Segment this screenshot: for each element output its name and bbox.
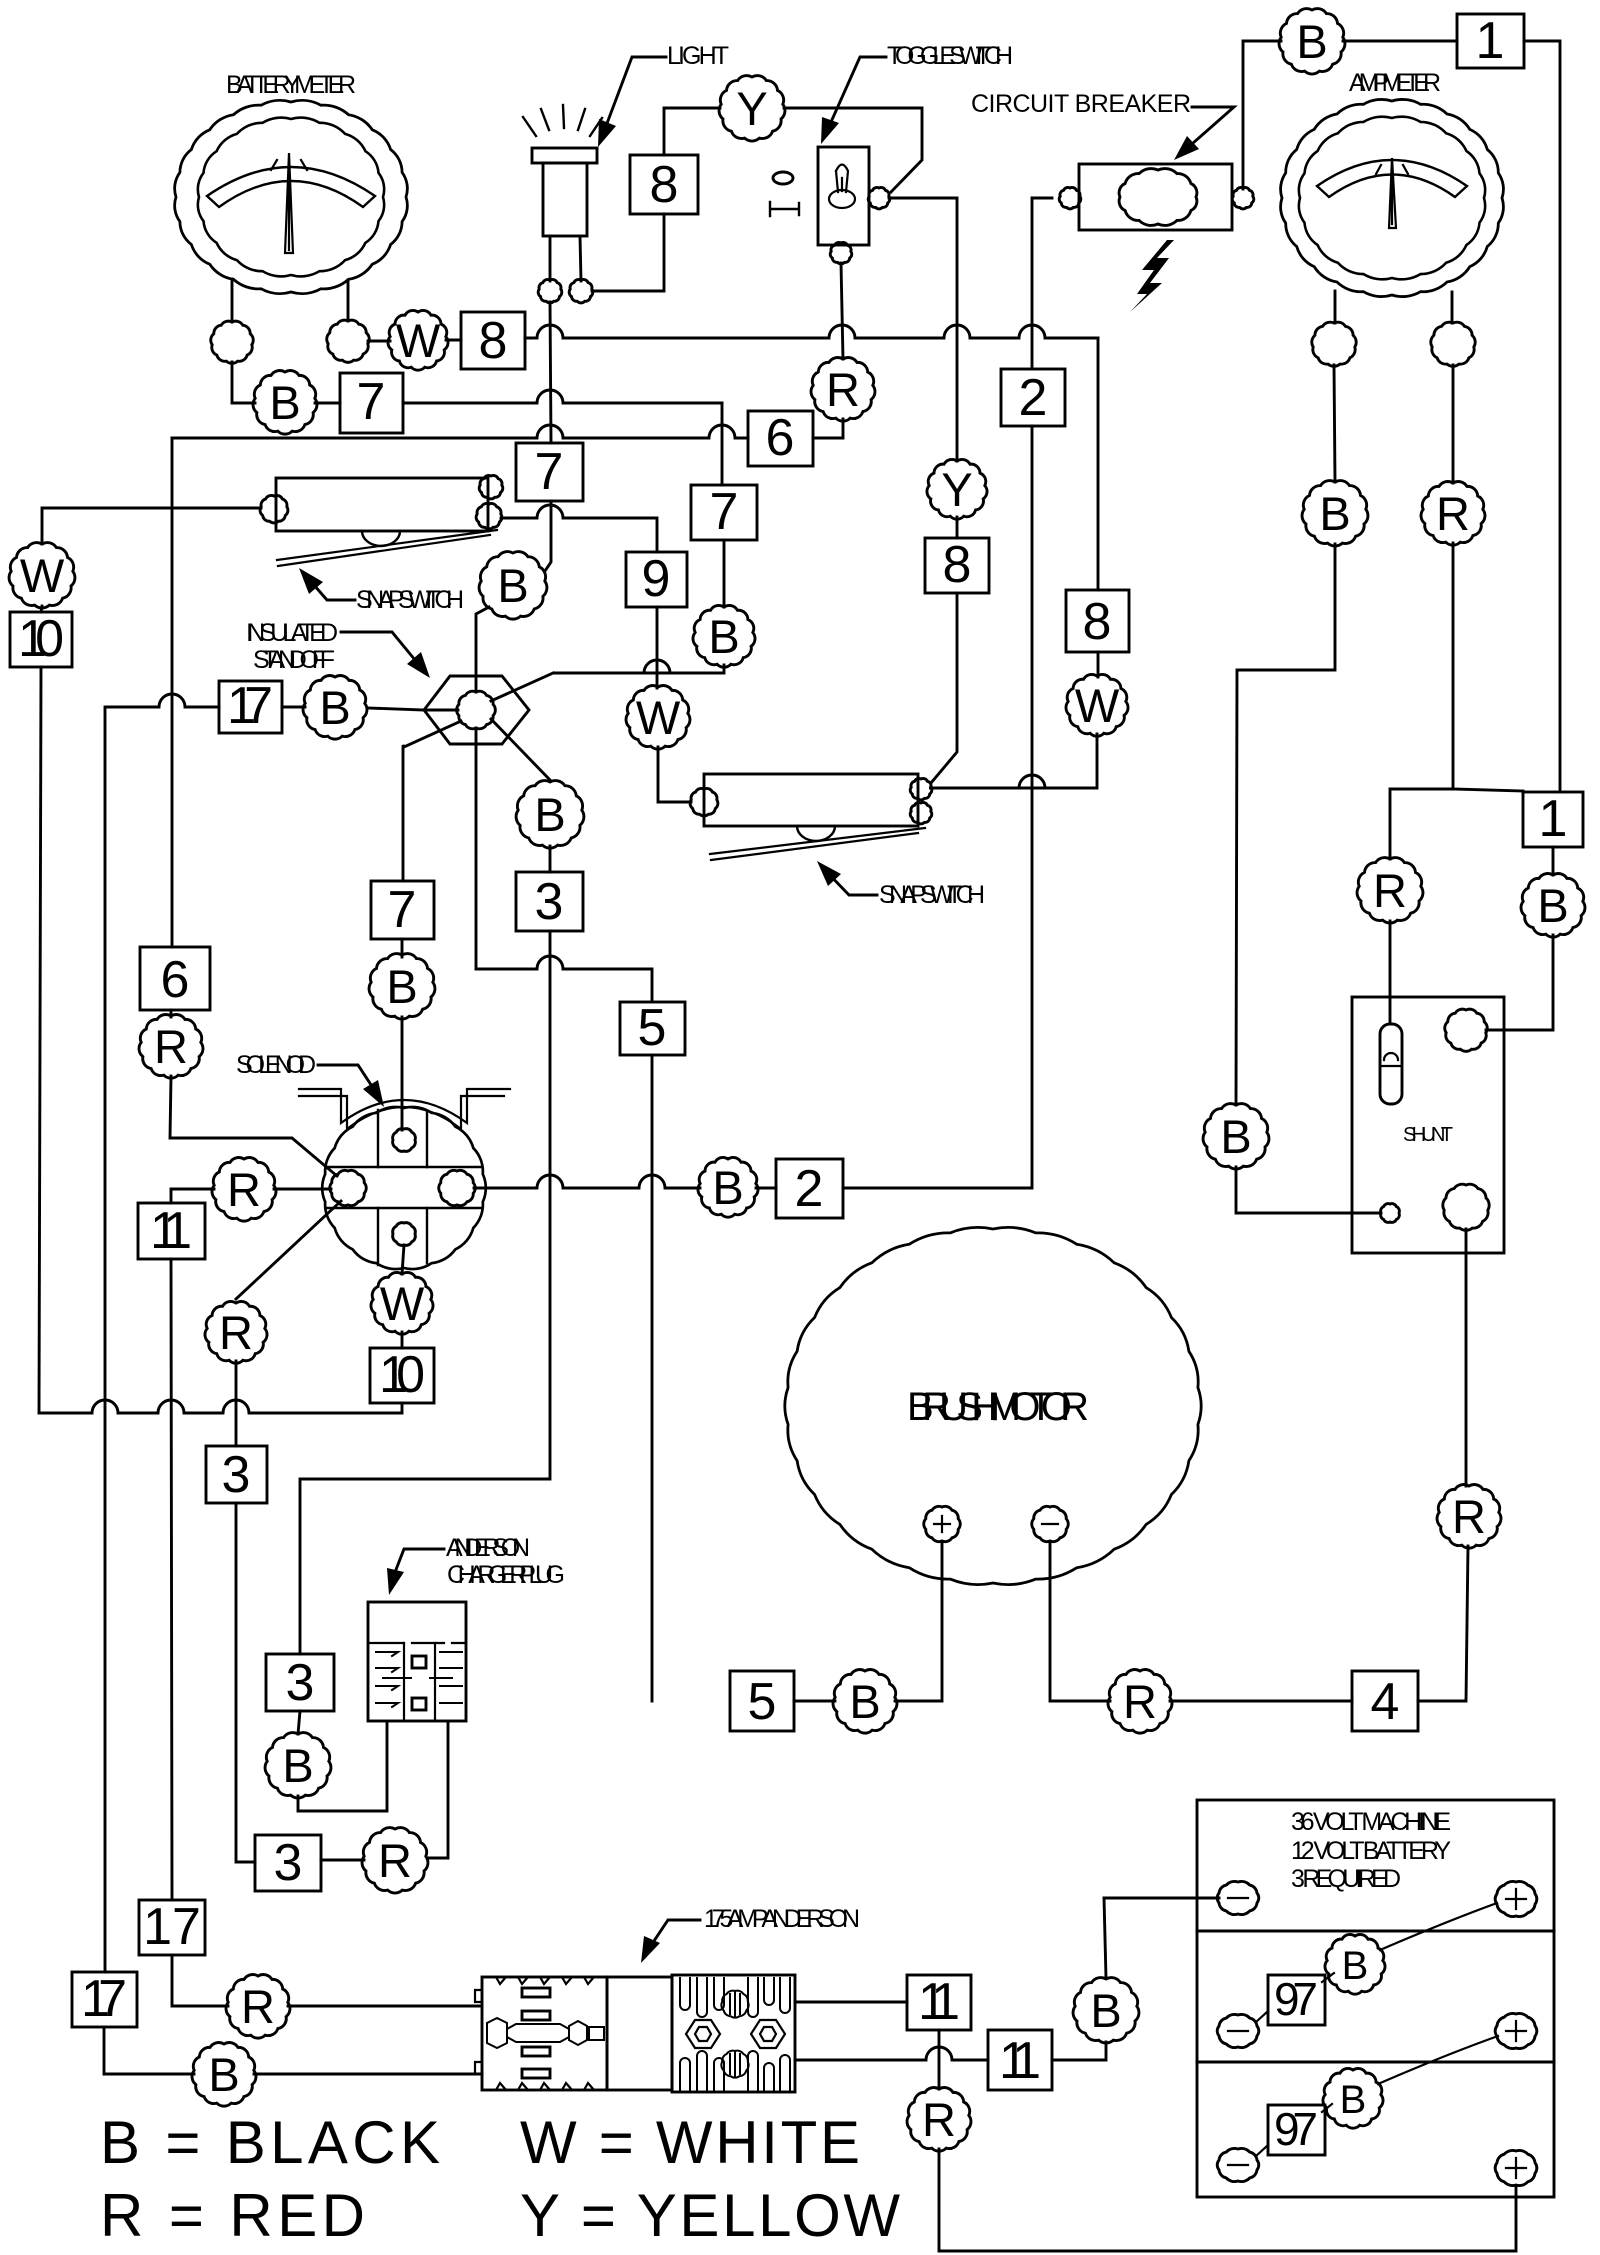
- snap switch 1 roller: [362, 531, 400, 546]
- light leader: [603, 57, 666, 134]
- standoff spoke down: [475, 728, 478, 969]
- svg-text:11: 11: [918, 1973, 960, 2031]
- wire 3b down to 3c: [236, 1503, 255, 1862]
- toggle O mark: [773, 172, 793, 184]
- svg-text:1: 1: [1476, 12, 1505, 70]
- toggle switch body: [818, 147, 869, 245]
- box 10 (10b): [370, 1348, 434, 1403]
- svg-text:B: B: [319, 681, 350, 734]
- cloud W wire10: [9, 543, 75, 608]
- snap switch 1 lever: [277, 530, 497, 566]
- wire Y to 8d: [956, 517, 959, 538]
- svg-text:R: R: [154, 1020, 188, 1073]
- 175 anderson right pins bottom: [680, 2051, 790, 2090]
- svg-text:4: 4: [1371, 1673, 1400, 1731]
- wire snap1 lower to box9: [501, 505, 657, 552]
- cloud R wire6: [811, 358, 875, 422]
- svg-text:R: R: [227, 1163, 261, 1216]
- cloud B wire7: [253, 371, 317, 435]
- svg-text:R: R: [1123, 1675, 1157, 1728]
- svg-text:17: 17: [227, 677, 273, 735]
- amp meter needle: [1376, 158, 1408, 228]
- box 3 (3d): [516, 872, 583, 931]
- svg-text:5: 5: [638, 999, 667, 1057]
- box 5 (5a): [620, 1002, 685, 1055]
- wire amp B jog: [1236, 544, 1335, 1105]
- snap switch 1 arrowhead: [299, 568, 323, 594]
- svg-text:SNAP SWITCH: SNAP SWITCH: [879, 881, 985, 909]
- box 9: [626, 552, 687, 607]
- cloud B battery3: [1323, 2068, 1383, 2128]
- cloud B wire17 hex: [303, 676, 367, 740]
- wire 11 long drop: [171, 1259, 172, 1900]
- wire 7 drop x722: [721, 403, 724, 485]
- snap switch 2 body: [704, 774, 918, 826]
- wire W to 10b: [401, 1332, 404, 1348]
- box 8 (8d): [925, 538, 989, 593]
- svg-text:STANDOFF: STANDOFF: [253, 646, 335, 674]
- wire B3 to box3d: [549, 846, 552, 872]
- wire 6b to R: [170, 1010, 173, 1017]
- cloud B amp: [1302, 481, 1368, 546]
- snap switch 1 body: [276, 478, 488, 531]
- svg-text:8: 8: [943, 536, 972, 594]
- standoff spoke up: [476, 607, 489, 692]
- svg-text:R: R: [1452, 1490, 1486, 1543]
- svg-text:B: B: [1296, 15, 1327, 68]
- brush motor outline: [785, 1227, 1201, 1584]
- wire toggle bottom to R: [841, 263, 843, 359]
- wire toggle right to x957: [889, 198, 957, 461]
- battery2 jumper curve: [1380, 1903, 1497, 1950]
- svg-text:W: W: [396, 314, 441, 367]
- svg-text:CHARGER PLUG: CHARGER PLUG: [447, 1561, 565, 1589]
- svg-text:R = RED: R = RED: [100, 2182, 365, 2249]
- snap switch 1 upper right terminal: [479, 475, 503, 498]
- svg-text:CIRCUIT BREAKER: CIRCUIT BREAKER: [971, 90, 1191, 118]
- solenoid band: [326, 1167, 482, 1208]
- svg-text:7: 7: [710, 483, 739, 541]
- svg-text:B: B: [712, 1161, 743, 1214]
- wire anderson to 11b: [795, 2047, 988, 2060]
- svg-text:3: 3: [286, 1654, 315, 1712]
- breaker leader: [1184, 107, 1234, 151]
- solenoid bottom terminal: [393, 1223, 416, 1246]
- box 11 (11a): [907, 1975, 971, 2030]
- breaker bolt: [1130, 240, 1174, 312]
- wire box4 to R: [1170, 1700, 1352, 1703]
- box 8 (8a): [461, 312, 525, 369]
- box 97 (97a): [1268, 1975, 1325, 2025]
- breaker leader arrowhead: [1174, 136, 1199, 160]
- wire 5b to B: [794, 1700, 835, 1703]
- wire amp R down: [1453, 543, 1523, 791]
- solenoid post left: [377, 1110, 379, 1265]
- wire solenoid bottom to W: [402, 1245, 404, 1274]
- wire solenoid diag to R3: [236, 1201, 341, 1299]
- charger plug leader arrowhead: [387, 1568, 404, 1595]
- light rays: [523, 105, 602, 136]
- cloud B bottom: [1073, 1978, 1139, 2043]
- wire snap1 left to W: [42, 508, 261, 544]
- svg-text:W: W: [1075, 679, 1120, 732]
- motor plus terminal: [924, 1506, 960, 1541]
- wire 10 bus y1413: [39, 1400, 402, 1413]
- charger plug divider: [368, 1642, 466, 1644]
- svg-text:R: R: [219, 1306, 253, 1359]
- svg-text:LIGHT: LIGHT: [667, 42, 729, 70]
- wire B to box7a: [315, 402, 340, 405]
- 175 anderson mid block: [607, 1977, 672, 2090]
- wire amp R upper: [1452, 365, 1455, 483]
- svg-text:B: B: [282, 1739, 313, 1792]
- snap switch 2 lever: [710, 828, 925, 860]
- snap switch 1 left terminal: [260, 495, 288, 523]
- svg-text:R: R: [378, 1834, 412, 1887]
- svg-text:W = WHITE: W = WHITE: [520, 2109, 860, 2176]
- svg-text:TOGGLE SWITCH: TOGGLE SWITCH: [887, 42, 1013, 70]
- standoff hexagon: [424, 676, 529, 744]
- solenoid left terminal: [330, 1170, 366, 1205]
- battery3 minus terminal: [1217, 2148, 1259, 2181]
- wire R bottom route: [939, 2149, 1516, 2251]
- svg-text:W: W: [20, 549, 65, 602]
- svg-text:10: 10: [18, 610, 64, 668]
- cloud R solenoid: [212, 1158, 276, 1222]
- toggle lever: [836, 165, 848, 193]
- toggle leader arrowhead: [821, 117, 839, 144]
- battery bank outline: [1197, 1800, 1554, 2197]
- wire 3a to B: [298, 1711, 300, 1734]
- amp meter outer bezel: [1281, 99, 1504, 296]
- battery3 jumper curve: [1378, 2036, 1498, 2084]
- box 7 (7a): [340, 373, 403, 433]
- solenoid bracket outer: [299, 1089, 510, 1123]
- wire 7 left segment: [232, 362, 255, 403]
- box 17 (17a): [219, 681, 282, 733]
- box 11 (11c): [138, 1203, 205, 1259]
- svg-text:3: 3: [535, 873, 564, 931]
- svg-text:B: B: [849, 1675, 880, 1728]
- toggle bottom terminal: [830, 242, 852, 263]
- light left lead: [549, 236, 552, 281]
- snap switch 2 upper right terminal: [910, 778, 932, 799]
- snap switch 2 left terminal: [690, 788, 718, 816]
- box 17 (17c): [72, 1972, 137, 2027]
- shunt fuse capsule: [1380, 1024, 1402, 1104]
- 175 anderson left bars: [522, 1988, 550, 1997]
- 175 anderson hex right: [751, 2020, 785, 2048]
- battery2 plus terminal: [1495, 2013, 1537, 2048]
- wire 5 long drop: [651, 1055, 654, 1701]
- svg-text:Y: Y: [736, 82, 767, 135]
- svg-text:Y: Y: [941, 463, 972, 516]
- light leader arrowhead: [598, 119, 616, 147]
- battery meter inner bezel: [198, 118, 384, 277]
- circuit breaker ellipse: [1119, 169, 1197, 226]
- svg-text:SNAP SWITCH: SNAP SWITCH: [356, 586, 464, 614]
- svg-text:B: B: [1090, 1984, 1121, 2037]
- box 7 (7c): [516, 443, 583, 501]
- box 2 (2b): [776, 1159, 843, 1218]
- 175 anderson right pins top: [680, 1978, 790, 2017]
- cloud W wire9: [626, 686, 690, 750]
- wire 17 run left: [105, 694, 219, 1972]
- wire B to motor plus: [895, 1542, 942, 1701]
- svg-text:3: 3: [222, 1446, 251, 1504]
- snap switch 2 leader: [825, 870, 877, 895]
- cloud B motor: [833, 1670, 897, 1734]
- box 6 (6b): [140, 947, 210, 1010]
- charger plug body: [368, 1602, 466, 1721]
- svg-text:9: 9: [642, 550, 671, 608]
- svg-text:R: R: [826, 363, 860, 416]
- battery meter terminal left: [211, 321, 253, 363]
- standoff spoke downright: [491, 719, 550, 780]
- cloud B charger: [265, 1733, 331, 1798]
- battery3 97 to B link: [1322, 2104, 1332, 2112]
- wire R to fuse: [1389, 921, 1392, 1024]
- svg-text:3 REQUIRED: 3 REQUIRED: [1291, 1865, 1401, 1893]
- svg-text:97: 97: [1274, 1973, 1318, 2025]
- 175 anderson left block: [482, 1977, 607, 2090]
- shunt fuse mid: [1381, 1053, 1401, 1066]
- wire 5 horizontal y969: [476, 956, 652, 1002]
- amp meter terminal left: [1312, 322, 1356, 366]
- shunt terminal bottom left: [1381, 1204, 1400, 1223]
- standoff spoke upright: [491, 673, 553, 701]
- battery2 97 to B link: [1322, 1973, 1334, 1982]
- cloud B wire3 hex: [516, 781, 584, 849]
- svg-text:B: B: [208, 2048, 239, 2101]
- svg-text:W: W: [636, 691, 681, 744]
- wire B to 2b: [756, 1187, 776, 1190]
- cloud B wire7 lower: [693, 605, 755, 667]
- battery2 minus link: [1256, 2011, 1268, 2022]
- wire 8 drop x1098: [1097, 338, 1100, 590]
- shunt terminal bottom right: [1443, 1184, 1489, 1230]
- box 1 (1a): [1457, 14, 1524, 68]
- svg-text:7: 7: [388, 881, 417, 939]
- svg-text:Y = YELLOW: Y = YELLOW: [520, 2182, 900, 2249]
- cloud R amp: [1421, 482, 1485, 546]
- charger plug holes: [412, 1656, 426, 1668]
- svg-text:B: B: [1220, 1110, 1251, 1163]
- shunt body: [1352, 997, 1504, 1253]
- wire 8b to Y: [664, 108, 720, 155]
- svg-text:SOLENOID: SOLENOID: [236, 1051, 316, 1079]
- svg-text:8: 8: [650, 156, 679, 214]
- svg-text:B: B: [1340, 2078, 1367, 2122]
- wire B to solenoid top: [401, 1017, 404, 1130]
- wire R to box 11: [171, 1189, 214, 1203]
- svg-text:3: 3: [274, 1834, 303, 1892]
- box 5 (5b): [730, 1671, 794, 1731]
- svg-text:175 AMP ANDERSON: 175 AMP ANDERSON: [704, 1905, 860, 1933]
- motor plus sign: [934, 1516, 950, 1532]
- snap switch 2 arrowhead: [817, 861, 841, 886]
- charger plug pins left: [376, 1652, 411, 1707]
- cloud B top: [1279, 9, 1345, 74]
- cloud B light hex: [479, 552, 547, 620]
- svg-text:2: 2: [1019, 369, 1048, 427]
- toggle I mark: [770, 202, 799, 216]
- snap switch 2 lower right terminal: [910, 802, 932, 823]
- amp meter right lead: [1451, 292, 1454, 323]
- cloud R charger: [362, 1828, 428, 1893]
- wire 17c to B: [104, 2027, 194, 2074]
- svg-text:B: B: [386, 960, 417, 1013]
- wire 1 right side drop: [1524, 41, 1560, 792]
- box 97 (97b): [1268, 2105, 1325, 2155]
- cloud R wire6 lower: [139, 1015, 203, 1079]
- wire shunt BR down: [1465, 1229, 1468, 1486]
- cloud R wire17: [226, 1975, 290, 2039]
- wire B to 17a: [282, 706, 305, 709]
- light terminal left: [538, 279, 562, 302]
- wire 11b to B: [1052, 2042, 1106, 2060]
- wire plug right pin to R: [427, 1722, 448, 1858]
- wire 8 horizontal run y338: [525, 325, 1098, 338]
- 175 anderson slot: [487, 2018, 604, 2048]
- solenoid leader: [318, 1065, 377, 1094]
- svg-text:1: 1: [1539, 790, 1568, 848]
- battery3 plus terminal: [1495, 2150, 1537, 2185]
- wire 7 horizontal run y403: [403, 390, 722, 403]
- wire 8d down to snap2: [931, 593, 957, 783]
- svg-text:B: B: [1537, 879, 1568, 932]
- svg-text:B: B: [1342, 1944, 1369, 1988]
- wire light right to 8b: [592, 214, 664, 291]
- 175a leader arrowhead: [641, 1936, 660, 1963]
- cloud W wire8: [388, 310, 448, 370]
- charger plug col1: [404, 1643, 435, 1721]
- svg-text:17: 17: [81, 1970, 127, 2028]
- wire 3 long drop: [300, 931, 550, 1654]
- wire B to plug left pin: [298, 1722, 387, 1811]
- snap switch 1 lower right terminal: [476, 503, 502, 529]
- svg-text:R: R: [241, 1980, 275, 2033]
- wire battery meter left lead: [231, 279, 234, 322]
- 175 anderson hex left: [686, 2020, 720, 2048]
- wire breaker right to top bus: [1243, 41, 1281, 189]
- svg-text:11: 11: [150, 1202, 192, 1260]
- svg-text:8: 8: [479, 312, 508, 370]
- svg-text:SHUNT: SHUNT: [1403, 1124, 1453, 1146]
- cloud R shunt: [1357, 858, 1423, 923]
- standoff spoke downleft: [403, 721, 461, 881]
- svg-text:7: 7: [357, 373, 386, 431]
- 175a leader: [648, 1920, 700, 1950]
- cloud R wire3b: [205, 1301, 267, 1363]
- box 4: [1352, 1671, 1418, 1731]
- svg-text:BATTERY METER: BATTERY METER: [226, 71, 356, 99]
- svg-text:B: B: [497, 559, 528, 612]
- wire B jog to shunt: [1236, 1167, 1381, 1213]
- wire 9 to W: [656, 607, 659, 688]
- box 6 (6a): [748, 411, 813, 466]
- amp meter left lead: [1334, 291, 1337, 323]
- wire terminal to W: [368, 340, 390, 343]
- light right lead: [580, 236, 581, 281]
- wire B to box1a: [1343, 40, 1457, 43]
- solenoid bracket inner: [299, 1096, 504, 1129]
- cloud R bottom: [907, 2088, 971, 2152]
- svg-text:36 VOLT MACHINE: 36 VOLT MACHINE: [1291, 1808, 1451, 1836]
- battery2 minus terminal: [1217, 2014, 1259, 2047]
- wire 11a down to R: [938, 2030, 941, 2089]
- wire R to anderson: [288, 2005, 482, 2008]
- breaker right terminal: [1232, 187, 1254, 208]
- cloud W solenoid: [371, 1272, 433, 1334]
- svg-text:11: 11: [999, 2032, 1041, 2090]
- wire W down and left y788: [929, 734, 1097, 788]
- amp meter terminal right: [1431, 322, 1475, 366]
- wire 7d to B: [401, 939, 404, 957]
- cloud B 1b: [1521, 874, 1585, 938]
- light terminal right: [569, 279, 593, 302]
- wire W to 10a: [41, 606, 42, 612]
- svg-text:B: B: [708, 610, 739, 663]
- box 17 (17b): [139, 1900, 205, 1955]
- wire battery meter right lead: [347, 280, 350, 321]
- cloud B wire2: [698, 1157, 758, 1217]
- amp meter inner bezel: [1299, 117, 1485, 280]
- box 8 (8c): [1066, 590, 1129, 652]
- 175 anderson left teeth: [475, 1977, 594, 2090]
- light body: [543, 163, 587, 236]
- standoff center: [457, 691, 496, 729]
- box 8 (8b): [630, 155, 698, 214]
- battery meter outer bezel: [175, 100, 408, 293]
- svg-text:B = BLACK: B = BLACK: [100, 2109, 440, 2176]
- wire light left drop lower: [545, 501, 551, 571]
- svg-text:B: B: [1319, 487, 1350, 540]
- battery divider 1: [1197, 1930, 1554, 1933]
- svg-text:17: 17: [143, 1898, 201, 1956]
- charger plug leader: [392, 1549, 444, 1580]
- box 1 (1b): [1523, 792, 1583, 847]
- wire R down to y1701: [1418, 1546, 1468, 1701]
- wire R3 to 3b: [235, 1361, 238, 1446]
- 175 anderson bolt bottom: [721, 2051, 748, 2078]
- standoff leader: [341, 632, 420, 666]
- battery1 plus terminal: [1495, 1881, 1537, 1916]
- amp meter scale arc: [1317, 160, 1467, 197]
- svg-text:2: 2: [795, 1160, 824, 1218]
- wire R branch to shunt fuse: [1390, 789, 1453, 859]
- svg-text:5: 5: [748, 1673, 777, 1731]
- snap switch 2 roller: [797, 826, 835, 841]
- svg-text:12 VOLT BATTERY: 12 VOLT BATTERY: [1291, 1837, 1451, 1865]
- battery1 minus terminal: [1217, 1881, 1259, 1914]
- wire 6 drop x172: [171, 438, 174, 947]
- wire B to shunt TR: [1486, 935, 1553, 1030]
- wire R to solenoid coil: [170, 1076, 337, 1176]
- box 3 (3b): [206, 1446, 267, 1503]
- wire 6 bus y440: [172, 425, 748, 438]
- wire amp B upper: [1334, 365, 1335, 482]
- battery divider 2: [1197, 2061, 1554, 2064]
- motor minus terminal: [1032, 1506, 1068, 1541]
- wire R to box6a: [813, 419, 843, 438]
- cloud Y wire8 mid: [927, 459, 987, 519]
- box 3 (3a): [266, 1654, 334, 1711]
- svg-text:97: 97: [1274, 2103, 1318, 2155]
- standoff spoke left: [368, 708, 458, 710]
- wire R to motor minus: [1050, 1542, 1110, 1701]
- wire 2 to breaker: [843, 426, 1032, 1188]
